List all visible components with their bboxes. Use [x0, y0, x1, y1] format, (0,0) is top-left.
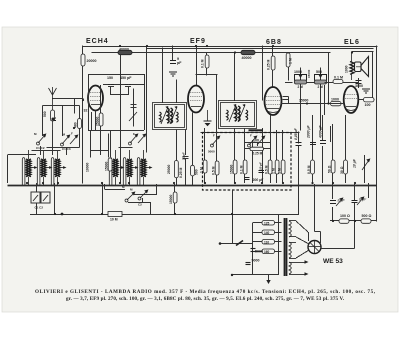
svg-text:15000: 15000: [169, 194, 173, 204]
svg-text:15000: 15000: [105, 161, 109, 171]
svg-text:F: F: [71, 132, 73, 136]
svg-text:10 μF: 10 μF: [353, 158, 357, 168]
svg-text:OLIVIERI e GLISENTI - LAMBDA R: OLIVIERI e GLISENTI - LAMBDA RADIO mod. …: [35, 289, 376, 295]
svg-text:100 Ω: 100 Ω: [340, 214, 350, 218]
svg-text:15000: 15000: [307, 69, 311, 78]
svg-text:F: F: [44, 135, 46, 139]
svg-text:gr. — 3,7, EF9 pl. 270, sch. 1: gr. — 3,7, EF9 pl. 270, sch. 100, gr. — …: [66, 296, 345, 302]
svg-text:8 μF: 8 μF: [359, 198, 367, 202]
svg-text:160: 160: [264, 250, 270, 254]
svg-text:450 pF: 450 pF: [120, 76, 132, 80]
svg-text:0.1 M: 0.1 M: [240, 165, 244, 174]
svg-text:500: 500: [316, 70, 322, 74]
svg-text:10 pF: 10 pF: [259, 162, 263, 170]
svg-text:125: 125: [264, 221, 270, 225]
svg-text:EL6: EL6: [344, 39, 360, 46]
svg-text:2 M: 2 M: [318, 85, 324, 89]
svg-text:0,05 μF: 0,05 μF: [294, 127, 298, 140]
svg-text:C1 C2: C1 C2: [36, 146, 45, 150]
svg-text:C2: C2: [138, 203, 142, 207]
svg-text:0.25 M: 0.25 M: [253, 152, 263, 156]
svg-text:WE 53: WE 53: [323, 258, 343, 265]
svg-text:500: 500: [43, 111, 47, 117]
svg-text:500 Ω: 500 Ω: [362, 214, 372, 218]
svg-text:25000: 25000: [96, 116, 100, 126]
svg-text:140: 140: [264, 231, 270, 235]
svg-text:20000: 20000: [87, 59, 97, 63]
svg-text:F: F: [213, 134, 215, 138]
svg-text:32: 32: [84, 109, 88, 113]
svg-text:0.25 M: 0.25 M: [267, 59, 271, 70]
svg-text:C1 C2: C1 C2: [35, 206, 44, 210]
svg-text:EF9: EF9: [190, 38, 206, 45]
svg-text:1000: 1000: [331, 98, 339, 102]
svg-text:500: 500: [195, 169, 199, 175]
svg-text:25000: 25000: [167, 164, 171, 174]
svg-text:15000: 15000: [299, 98, 309, 102]
svg-text:1 M: 1 M: [272, 168, 276, 174]
svg-text:2 M: 2 M: [298, 85, 304, 89]
svg-text:40000: 40000: [119, 47, 129, 51]
svg-text:5000: 5000: [252, 259, 260, 263]
svg-text:100: 100: [253, 138, 259, 142]
svg-text:0.1 M: 0.1 M: [201, 59, 205, 68]
svg-text:0.25 M: 0.25 M: [179, 167, 183, 178]
svg-text:3000: 3000: [355, 84, 363, 88]
svg-text:1 M: 1 M: [278, 168, 282, 174]
svg-text:0.5 M: 0.5 M: [212, 166, 216, 175]
svg-text:5000: 5000: [255, 250, 263, 254]
svg-text:6B8: 6B8: [266, 39, 282, 46]
svg-text:15000: 15000: [230, 164, 234, 174]
svg-text:480: 480: [74, 122, 78, 128]
svg-text:F: F: [133, 132, 135, 136]
svg-text:10000: 10000: [86, 162, 90, 172]
svg-text:30 Ω: 30 Ω: [340, 166, 344, 174]
svg-text:50 Ω: 50 Ω: [328, 165, 332, 173]
svg-text:1000: 1000: [345, 65, 349, 73]
svg-text:10 M: 10 M: [110, 218, 118, 222]
svg-text:4000 μF: 4000 μF: [319, 124, 323, 139]
svg-text:F: F: [250, 134, 252, 138]
svg-text:200 μF: 200 μF: [252, 178, 265, 182]
svg-text:ECH4: ECH4: [86, 38, 109, 45]
svg-text:0.1 M: 0.1 M: [334, 76, 343, 80]
svg-text:40000: 40000: [242, 56, 252, 60]
svg-text:110: 110: [264, 240, 269, 244]
svg-text:100: 100: [365, 103, 371, 107]
svg-text:5000: 5000: [208, 150, 215, 154]
svg-text:8 μF: 8 μF: [338, 199, 346, 203]
svg-text:150: 150: [107, 76, 113, 80]
svg-text:21 pF: 21 pF: [181, 152, 185, 160]
svg-text:0.5 M: 0.5 M: [307, 165, 311, 174]
svg-text:C1 C3: C1 C3: [62, 147, 71, 151]
svg-text:1000: 1000: [294, 70, 302, 74]
svg-text:2000 μF: 2000 μF: [307, 124, 311, 139]
svg-text:0.5 M: 0.5 M: [265, 165, 269, 174]
svg-text:1 M: 1 M: [200, 167, 204, 173]
svg-text:1 M: 1 M: [289, 58, 293, 64]
